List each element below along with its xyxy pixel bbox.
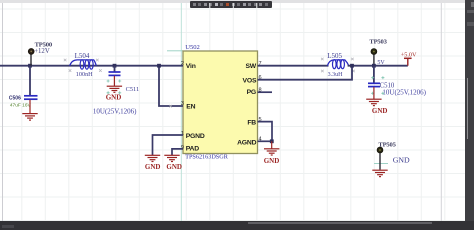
- wire PAD to ground: [172, 149, 183, 155]
- svg-text:+12V: +12V: [34, 48, 50, 55]
- pin numbers U502: [181, 61, 262, 151]
- power +5.0V: [401, 52, 417, 66]
- svg-text:GND: GND: [145, 163, 161, 171]
- capacitor C511: [93, 66, 139, 116]
- ground below AGND: [264, 141, 279, 155]
- ground below PGND wire: [145, 155, 160, 161]
- wire PGND to ground: [153, 135, 184, 155]
- svg-text:TP503: TP503: [369, 39, 387, 46]
- svg-text:VOS: VOS: [243, 77, 257, 84]
- inductor L505: [327, 52, 349, 78]
- pin PG stub: [258, 91, 273, 93]
- test point TP503: [369, 39, 387, 66]
- node FB-AGND junction: [270, 139, 274, 143]
- test point TP505: [377, 142, 397, 170]
- test point TP500: [28, 41, 53, 65]
- svg-text:L504: L504: [75, 52, 90, 60]
- wire VOS feedback: [258, 66, 353, 80]
- ground below TP505: [372, 170, 387, 176]
- node C511 junction: [113, 64, 117, 68]
- svg-text:EN: EN: [186, 104, 195, 111]
- wire FB loop: [258, 122, 273, 142]
- node EN junction: [157, 64, 161, 68]
- guide tick near U502 corner: [167, 50, 183, 52]
- svg-text:3.3uH: 3.3uH: [328, 72, 344, 78]
- svg-text:U502: U502: [185, 44, 200, 51]
- handle marks around L505: [321, 58, 355, 73]
- svg-text:PG: PG: [247, 89, 256, 96]
- svg-text:SW: SW: [245, 63, 256, 70]
- wire after L505 to +5.0V: [348, 65, 408, 67]
- wire AGND pin: [258, 140, 273, 142]
- svg-text:GND: GND: [264, 157, 280, 165]
- svg-text:GND: GND: [393, 156, 410, 165]
- handle mark on EN wire: [169, 105, 172, 108]
- floating toolbar: [190, 1, 272, 8]
- ground below C511: [107, 76, 122, 92]
- inductor L504: [70, 52, 97, 78]
- capacitor C510: [368, 66, 427, 97]
- svg-text:TP505: TP505: [378, 142, 396, 149]
- svg-text:FB: FB: [247, 119, 256, 126]
- wire main +12V net: [0, 65, 183, 67]
- guide tick at TP505: [374, 163, 388, 165]
- handle marks at C510: [371, 76, 384, 95]
- ground below PAD wire: [164, 155, 179, 161]
- svg-text:5V: 5V: [377, 60, 385, 66]
- svg-text:GND: GND: [106, 93, 122, 101]
- svg-text:PAD: PAD: [186, 146, 200, 153]
- wire SW output net: [258, 65, 329, 67]
- svg-text:C511: C511: [126, 86, 140, 93]
- ground below C506: [22, 100, 37, 120]
- node VOS junction: [350, 64, 354, 68]
- pin names U502: [186, 63, 257, 153]
- sheet edge right: [440, 3, 442, 221]
- svg-text:1: 1: [181, 131, 184, 137]
- svg-text:10U(25V,1206): 10U(25V,1206): [93, 107, 137, 115]
- handle marks at C511 ground: [107, 80, 122, 95]
- guide vertical teal line: [180, 3, 182, 221]
- right dark panel: [465, 0, 474, 230]
- wire EN branch: [159, 66, 183, 106]
- IC U502 (TPS62163DSGR buck regulator): [183, 44, 258, 161]
- handle marks around L504: [64, 59, 102, 72]
- svg-text:10U(25V,1206): 10U(25V,1206): [382, 88, 426, 96]
- svg-text:+5.0V: +5.0V: [401, 52, 417, 59]
- node TP500 junction: [28, 64, 32, 68]
- bottom dark bar: [0, 221, 474, 230]
- svg-text:GND: GND: [166, 163, 182, 171]
- svg-text:47uF 16V: 47uF 16V: [10, 102, 32, 108]
- svg-text:GND: GND: [372, 107, 388, 115]
- node TP503 junction: [372, 64, 376, 68]
- svg-text:PGND: PGND: [186, 133, 205, 140]
- svg-text:AGND: AGND: [237, 140, 257, 147]
- capacitor C506: [9, 66, 38, 109]
- svg-text:Vin: Vin: [186, 63, 196, 70]
- svg-text:100nH: 100nH: [76, 71, 93, 78]
- sheet edge left: [2, 3, 4, 221]
- svg-text:C506: C506: [9, 96, 21, 102]
- svg-text:TPS62163DSGR: TPS62163DSGR: [185, 154, 229, 161]
- ground below C510: [366, 87, 381, 106]
- top gray strip: [0, 0, 465, 3]
- svg-text:L505: L505: [327, 52, 342, 60]
- svg-text:9: 9: [181, 145, 184, 151]
